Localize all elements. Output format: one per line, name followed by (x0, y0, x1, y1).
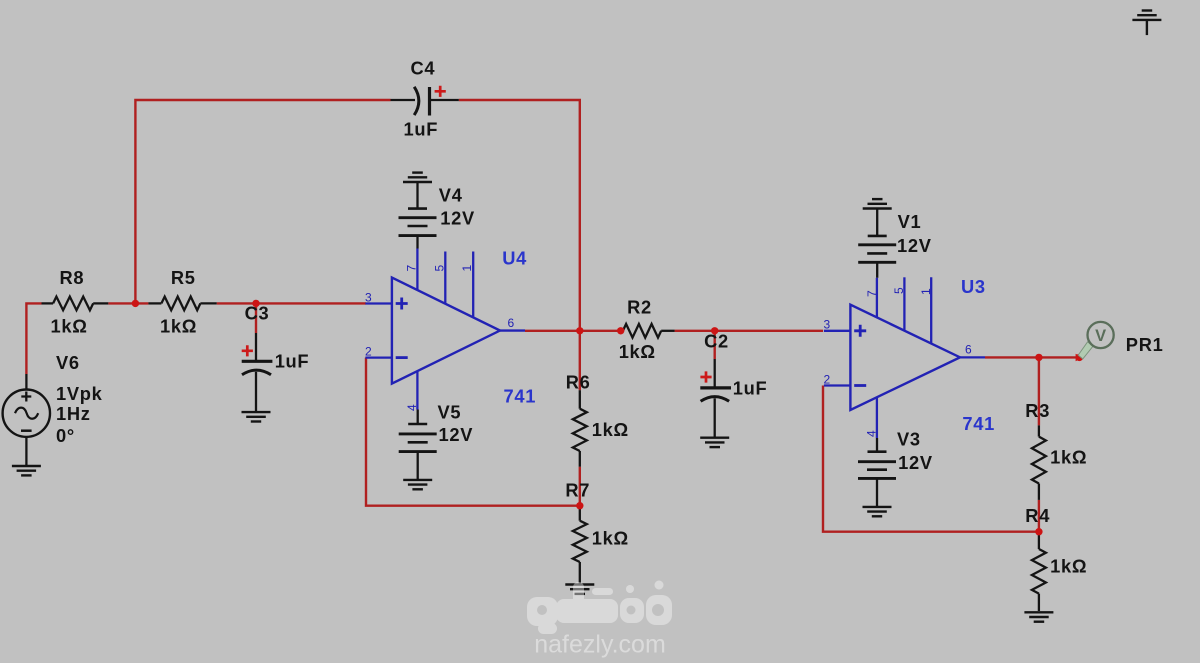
junction R2 left (617, 327, 624, 334)
capacitor C2 (700, 359, 731, 438)
pin 2 U3 (824, 372, 831, 386)
resistor R3 (1032, 425, 1046, 500)
ground V1 (inverted) (863, 199, 892, 208)
wire: C2 stub (714, 331, 716, 359)
wire: node A up to C4 left (135, 100, 390, 303)
svg-text:6: 6 (508, 316, 515, 330)
pin 7 U3 (865, 290, 879, 297)
wire: C4 right down to output node (459, 100, 580, 331)
svg-text:V4: V4 (439, 185, 463, 206)
wire: U4 feedback pin2 to R7 node (366, 358, 580, 506)
wire: V6 top to R8 (26, 303, 41, 374)
svg-text:R6: R6 (566, 372, 591, 393)
op-amp U3 (741) (824, 277, 985, 438)
wire: R2 to U3 pin3 (node C2) (675, 330, 823, 332)
ground V5 (403, 480, 432, 489)
svg-text:1Vpk: 1Vpk (56, 383, 103, 404)
source V6 (3, 374, 50, 466)
polarity + C4 (435, 86, 446, 97)
capacitor C3 (242, 333, 273, 412)
svg-text:5: 5 (432, 265, 446, 272)
svg-text:V1: V1 (898, 211, 922, 232)
svg-text:U3: U3 (961, 276, 986, 297)
svg-text:1kΩ: 1kΩ (51, 315, 88, 336)
junction node C3 (252, 300, 259, 307)
svg-text:C4: C4 (411, 57, 436, 78)
wire: C3 stub (255, 303, 257, 333)
wire: R6 to R7 node (579, 467, 581, 506)
ground C3 (242, 412, 271, 421)
resistor R7 (573, 506, 587, 584)
pin 6 U3 (965, 343, 972, 357)
svg-text:1kΩ: 1kΩ (592, 419, 629, 440)
svg-text:V6: V6 (56, 352, 80, 373)
wire: output node down to R6 (579, 331, 581, 390)
pin 1 U4 (460, 265, 474, 272)
svg-text:PR1: PR1 (1126, 334, 1164, 355)
wire: R8 to node A (108, 302, 148, 304)
svg-text:R8: R8 (60, 267, 85, 288)
wire: output node down to R3 (1038, 357, 1040, 425)
svg-text:12V: 12V (897, 235, 932, 256)
wire: U3 pin6 to probe (985, 356, 1079, 358)
svg-text:3: 3 (824, 317, 831, 331)
pin 3 U3 (824, 317, 831, 331)
pin 7 U4 (405, 265, 419, 272)
pin 2 U4 (365, 344, 372, 358)
svg-text:5: 5 (892, 287, 906, 294)
svg-text:7: 7 (865, 290, 879, 297)
svg-text:741: 741 (962, 413, 995, 434)
svg-text:2: 2 (365, 344, 372, 358)
junction node C2 (711, 327, 718, 334)
svg-text:1kΩ: 1kΩ (592, 527, 629, 548)
capacitor C4 (391, 87, 459, 116)
junction R4 node (1035, 528, 1042, 535)
ground R4 (1024, 612, 1053, 621)
resistor R8 (42, 297, 109, 311)
svg-text:0°: 0° (56, 425, 75, 446)
resistor R4 (1032, 532, 1046, 611)
ground V3 (863, 507, 892, 516)
svg-text:1: 1 (919, 288, 933, 295)
ground (top right, isolated) (1132, 11, 1161, 36)
polarity + C3 (242, 345, 253, 356)
ground V4 (inverted) (403, 173, 432, 182)
pin 4 U3 (864, 430, 878, 437)
svg-text:U4: U4 (502, 248, 527, 269)
svg-text:nafezly.com: nafezly.com (534, 631, 666, 659)
svg-text:1kΩ: 1kΩ (619, 341, 656, 362)
svg-text:1kΩ: 1kΩ (1050, 447, 1087, 468)
wire: R5 to U4 pin3 (node C3) (217, 302, 366, 304)
svg-text:1: 1 (460, 265, 474, 272)
probe PR1 (1076, 322, 1114, 361)
ground C2 (700, 438, 729, 447)
pin 1 U3 (919, 288, 933, 295)
svg-text:1uF: 1uF (404, 119, 439, 140)
junction R7 node (576, 502, 583, 509)
svg-text:4: 4 (864, 430, 878, 437)
svg-text:V: V (1095, 327, 1106, 345)
junction output U4 node (576, 327, 583, 334)
junction R3 top node (1035, 354, 1042, 361)
svg-text:1Hz: 1Hz (56, 403, 91, 424)
svg-text:12V: 12V (898, 452, 933, 473)
ground V6 (12, 466, 41, 475)
svg-text:R4: R4 (1025, 505, 1050, 526)
pin 5 U3 (892, 287, 906, 294)
svg-text:1uF: 1uF (275, 351, 310, 372)
junction probe tip (1076, 354, 1083, 361)
svg-text:3: 3 (365, 290, 372, 304)
svg-text:V5: V5 (438, 402, 462, 423)
svg-text:12V: 12V (440, 208, 475, 229)
resistor R5 (148, 297, 216, 311)
pin 3 U4 (365, 290, 372, 304)
battery V3 (858, 438, 896, 507)
svg-text:6: 6 (965, 343, 972, 357)
pin 5 U4 (432, 265, 446, 272)
svg-text:2: 2 (824, 372, 831, 386)
wire: U3 feedback pin2 to R4 node (823, 386, 1039, 532)
battery V4 (399, 182, 437, 249)
svg-text:R5: R5 (171, 267, 196, 288)
battery V1 (858, 209, 896, 278)
svg-text:R3: R3 (1025, 400, 1050, 421)
svg-text:R2: R2 (627, 297, 652, 318)
op-amp U4 (741) (365, 249, 525, 410)
resistor R6 (573, 390, 587, 467)
resistor R2 (623, 324, 675, 338)
ground R7 (565, 585, 594, 594)
wire: R3 to R4 node (1038, 500, 1040, 532)
svg-text:R7: R7 (565, 480, 590, 501)
svg-text:4: 4 (405, 404, 419, 411)
svg-text:7: 7 (405, 265, 419, 272)
junction node A (R8/R5/C4) (132, 300, 139, 307)
pin 4 U4 (405, 404, 419, 411)
polarity + C2 (700, 371, 711, 382)
battery V5 (399, 410, 437, 480)
wire: U4 pin6 to R2 (525, 330, 621, 332)
svg-text:1kΩ: 1kΩ (160, 315, 197, 336)
watermark logo (527, 581, 672, 635)
svg-text:1uF: 1uF (733, 378, 768, 399)
svg-text:V3: V3 (897, 428, 921, 449)
svg-text:1kΩ: 1kΩ (1050, 555, 1087, 576)
pin 6 U4 (508, 316, 515, 330)
svg-text:741: 741 (504, 386, 537, 407)
svg-text:12V: 12V (439, 424, 474, 445)
